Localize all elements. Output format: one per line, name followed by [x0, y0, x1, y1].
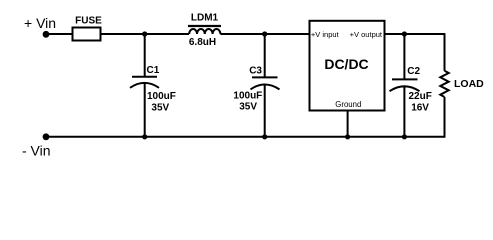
- svg-text:- Vin: - Vin: [22, 142, 51, 158]
- svg-text:C1: C1: [147, 65, 160, 76]
- svg-text:LOAD: LOAD: [454, 78, 484, 90]
- capacitor C2 wire upper: [403, 34, 405, 80]
- svg-text:C2: C2: [407, 66, 420, 77]
- svg-text:22uF: 22uF: [409, 91, 432, 102]
- capacitor C2 curved plate: [390, 86, 420, 91]
- wire bottom rail: [46, 136, 445, 138]
- capacitor C1 top plate: [132, 76, 157, 78]
- resistor LOAD zigzag: [440, 71, 448, 97]
- wire top rail from +Vin dot to fuse: [46, 33, 73, 35]
- wire load branch upper: [444, 33, 446, 71]
- svg-text:+V input: +V input: [311, 30, 340, 39]
- node + Vin terminal dot: [43, 31, 50, 38]
- svg-text:FUSE: FUSE: [75, 16, 102, 27]
- capacitor C3 curved plate: [251, 85, 280, 90]
- node junction C3 top: [262, 31, 267, 36]
- op-amp U1 DC/DC converter box: [310, 21, 385, 111]
- svg-text:100uF: 100uF: [147, 91, 176, 102]
- svg-text:+V output: +V output: [350, 30, 383, 39]
- capacitor C3 wire lower: [264, 85, 266, 137]
- svg-text:16V: 16V: [411, 103, 429, 114]
- svg-text:Ground: Ground: [335, 100, 361, 109]
- svg-text:35V: 35V: [239, 101, 257, 112]
- capacitor C3 top plate: [252, 76, 278, 78]
- svg-text:35V: 35V: [151, 103, 169, 114]
- inductor L1 core bar: [188, 25, 221, 27]
- svg-text:+ Vin: + Vin: [24, 15, 56, 31]
- capacitor C1 wire upper: [144, 34, 146, 77]
- inductor L1 winding humps: [189, 29, 220, 34]
- node junction C2 bottom: [402, 134, 407, 139]
- node junction C3 bottom: [262, 134, 267, 139]
- wire inductor to C3 junction to DC/DC input: [220, 33, 309, 35]
- node - Vin terminal dot: [43, 133, 50, 140]
- svg-text:100uF: 100uF: [233, 91, 262, 102]
- svg-text:DC/DC: DC/DC: [324, 56, 368, 72]
- node junction DC/DC ground bottom: [345, 134, 350, 139]
- wire load branch lower: [444, 97, 446, 138]
- capacitor C1 curved plate: [130, 83, 159, 88]
- wire fuse to C1 junction to inductor: [101, 33, 190, 35]
- svg-text:6.8uH: 6.8uH: [189, 37, 216, 48]
- fuse FUSE body: [73, 28, 101, 41]
- capacitor C1 wire lower: [144, 83, 146, 137]
- svg-text:LDM1: LDM1: [191, 13, 219, 24]
- capacitor C3 wire upper: [264, 34, 266, 78]
- node junction C1 bottom: [142, 134, 147, 139]
- capacitor C2 top plate: [392, 78, 418, 80]
- node junction C1 top: [142, 31, 147, 36]
- capacitor C2 wire lower: [403, 86, 405, 137]
- wire DC/DC ground pin down: [347, 111, 349, 137]
- node junction C2 top: [402, 31, 407, 36]
- svg-text:C3: C3: [249, 66, 262, 77]
- wire DC/DC output to load corner: [385, 33, 445, 35]
